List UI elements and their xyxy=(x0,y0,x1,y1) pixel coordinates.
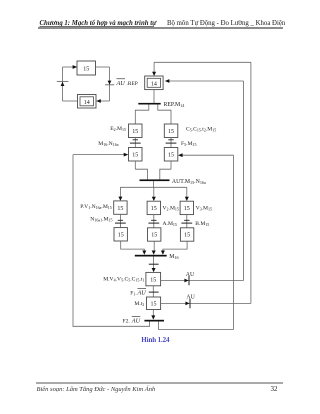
step 15 H xyxy=(146,272,161,285)
wire col3 converge xyxy=(163,241,187,251)
svg-text:Chương 1: Mạch tổ hợp và mạch: Chương 1: Mạch tổ hợp và mạch trình tự xyxy=(40,20,158,27)
footer rule xyxy=(36,382,283,384)
svg-text:M.V4.V5.C5.C15.t1: M.V4.V5.C5.C15.t1 xyxy=(103,277,144,283)
svg-text:15: 15 xyxy=(151,206,157,212)
wire col2 converge xyxy=(153,241,155,251)
transition bar REP.M14 xyxy=(138,103,160,105)
arrow col1 xyxy=(118,197,122,201)
header left title underline xyxy=(40,25,155,27)
up arrow on left vertical xyxy=(61,82,65,86)
svg-text:C5.C15.t2.M15: C5.C15.t2.M15 xyxy=(186,126,216,132)
tick wide col1 xyxy=(115,222,126,224)
svg-text:14: 14 xyxy=(151,81,157,87)
label AU.REP xyxy=(116,79,138,87)
svg-text:Biên soạn: Lâm Tăng Đức - Nguy: Biên soạn: Lâm Tăng Đức - Nguyễn Kim Ánh xyxy=(37,385,156,393)
svg-text:P.V1.N16a.M15: P.V1.N16a.M15 xyxy=(80,204,112,210)
label F2.AU xyxy=(123,317,141,325)
arrow onto F2 bar xyxy=(151,315,155,319)
wire left loop right vertical xyxy=(109,67,111,101)
svg-text:Hình 1.24: Hình 1.24 xyxy=(141,336,170,344)
wire div3 col2 xyxy=(153,187,155,197)
svg-text:15: 15 xyxy=(132,153,138,159)
arrow into box15 left xyxy=(73,65,78,69)
wire into box14 right xyxy=(100,100,110,102)
divergence bar F2 xyxy=(144,320,164,322)
tick wide left col xyxy=(130,142,141,144)
initial step 14 (double border) xyxy=(145,76,163,90)
step 15 right lower xyxy=(164,148,178,162)
initial step box 14 (AU loop bottom, double border) xyxy=(78,95,97,109)
tick AU line 1 xyxy=(188,276,190,285)
svg-text:15: 15 xyxy=(118,233,124,239)
wire right col down xyxy=(170,161,172,169)
svg-text:AUT.M15.N16a: AUT.M15.N16a xyxy=(172,179,206,185)
tick wide right col xyxy=(166,142,177,144)
svg-text:AU: AU xyxy=(137,289,147,296)
step 15 col3 upper xyxy=(180,201,193,214)
wire AU line 1 xyxy=(161,280,244,282)
wire converge right xyxy=(160,169,171,179)
tick short left col xyxy=(133,139,138,141)
svg-text:AU: AU xyxy=(186,272,195,278)
svg-text:15: 15 xyxy=(184,233,190,239)
wire below M16 bar xyxy=(153,257,155,269)
transition bar AUT xyxy=(140,179,170,181)
svg-text:M16.N16a: M16.N16a xyxy=(98,141,118,147)
arrow into step14 top xyxy=(152,72,156,76)
svg-text:15: 15 xyxy=(151,302,157,308)
tick short col1 xyxy=(118,219,123,221)
svg-text:Bộ môn Tự Động - Đo Lường _ Kh: Bộ môn Tự Động - Đo Lường _ Khoa Điện xyxy=(167,20,286,27)
transition tick AU.REP xyxy=(105,84,114,86)
step 15 col2 upper xyxy=(147,201,160,214)
tick short col3 xyxy=(184,219,189,221)
tick short right col xyxy=(168,139,173,141)
down arrow on right vertical xyxy=(108,81,112,85)
tick wide col3 xyxy=(181,222,192,224)
wire col1 between xyxy=(119,214,121,227)
step 15 col2 lower xyxy=(148,228,161,241)
svg-text:V3.M15: V3.M15 xyxy=(196,205,212,211)
svg-text:E2.M15: E2.M15 xyxy=(110,126,126,132)
arrow col3 onto bar xyxy=(161,251,165,255)
wire col3 between xyxy=(186,215,188,228)
svg-text:.REP: .REP xyxy=(127,81,138,87)
svg-text:15: 15 xyxy=(168,129,174,135)
svg-text:14: 14 xyxy=(84,100,90,106)
wire left loop top horizontal right xyxy=(96,66,110,68)
label F1.AU xyxy=(130,289,146,297)
arrow AU line 1 xyxy=(184,279,188,283)
tick wide col2 xyxy=(148,222,159,224)
arrow into step H xyxy=(152,268,156,272)
arrow col3 xyxy=(185,197,189,201)
svg-text:V2.M15: V2.M15 xyxy=(163,205,179,211)
step 15 col3 lower xyxy=(180,228,193,241)
arrow col1 onto bar xyxy=(142,251,146,255)
convergence bar M16 xyxy=(135,255,167,257)
step 15 col1 upper xyxy=(114,201,127,214)
arrow col2 onto bar xyxy=(152,251,156,255)
tick short col2 xyxy=(151,219,156,221)
svg-text:F5.M15: F5.M15 xyxy=(181,141,197,147)
wire col2 between xyxy=(153,215,155,228)
wire right col between xyxy=(170,138,172,148)
wire feedback right 2 vertical xyxy=(250,62,252,303)
arrow into step14 right xyxy=(165,79,170,83)
wire step14 bottom xyxy=(153,90,155,103)
arrow into right lower box xyxy=(178,153,183,157)
svg-text:AU: AU xyxy=(131,317,141,324)
step 15 left lower xyxy=(129,148,143,162)
wire col1 converge xyxy=(121,241,145,251)
svg-text:15: 15 xyxy=(83,67,89,73)
arrow col2 xyxy=(152,197,156,201)
wire left loop left vertical xyxy=(62,67,64,101)
svg-text:N16a1.M15: N16a1.M15 xyxy=(90,217,112,223)
svg-text:F1.: F1. xyxy=(130,290,137,296)
wire div3 col3 xyxy=(186,187,188,197)
svg-text:M16: M16 xyxy=(169,254,178,260)
step 15 I xyxy=(147,297,161,310)
svg-text:F2.: F2. xyxy=(123,318,131,324)
tick AU line 2 xyxy=(189,299,191,308)
arrow AU line 2 xyxy=(185,302,189,306)
wire left loop top horizontal xyxy=(63,66,74,68)
step 15 col1 lower xyxy=(114,228,127,241)
svg-text:REP.M14: REP.M14 xyxy=(164,102,186,108)
wire into step14 right xyxy=(169,80,244,82)
step 15 right upper xyxy=(164,124,178,138)
wire top feedback horizontal xyxy=(154,61,251,63)
step 15 left upper xyxy=(129,124,143,138)
header rule xyxy=(38,27,283,29)
wire below step H xyxy=(152,286,154,297)
wire feedback into right lower box xyxy=(182,154,234,156)
wire divergence-3 horizontal xyxy=(120,186,186,188)
svg-text:15: 15 xyxy=(168,153,174,159)
svg-text:15: 15 xyxy=(184,206,190,212)
tick F1.AU xyxy=(149,291,159,293)
svg-text:B.M15: B.M15 xyxy=(195,221,209,227)
wire below step I xyxy=(152,310,154,316)
wire divergence left stub xyxy=(135,105,149,125)
wire F2 right stub xyxy=(158,155,233,329)
wire below AUT bar xyxy=(153,181,155,187)
svg-text:AU: AU xyxy=(116,80,126,87)
wire F2 left stub xyxy=(73,155,150,327)
svg-text:15: 15 xyxy=(150,277,156,283)
transition tick left loop left xyxy=(57,80,69,82)
svg-text:15: 15 xyxy=(151,233,157,239)
step box 15 (AU loop top) xyxy=(77,61,96,75)
svg-text:AU: AU xyxy=(186,295,195,301)
wire feedback into left lower box xyxy=(73,154,125,156)
wire into step14 top xyxy=(153,62,155,72)
wire feedback right 1 vertical xyxy=(243,81,245,281)
svg-text:15: 15 xyxy=(132,129,138,135)
wire AU line 2 xyxy=(161,302,251,304)
arrow into left lower box xyxy=(124,153,129,157)
wire divergence right stub xyxy=(158,105,171,125)
wire converge left xyxy=(135,169,147,179)
wire div3 col1 xyxy=(119,187,121,197)
wire left col between xyxy=(134,138,136,148)
arrow into box14 right xyxy=(96,99,101,103)
wire left col down xyxy=(134,161,136,169)
svg-text:15: 15 xyxy=(117,206,123,212)
transition tick below M16 xyxy=(149,263,159,265)
wire left loop bottom horizontal left xyxy=(63,100,78,102)
svg-text:A.M15: A.M15 xyxy=(163,221,177,227)
svg-text:M.t2: M.t2 xyxy=(134,301,144,307)
svg-text:32: 32 xyxy=(271,385,279,393)
